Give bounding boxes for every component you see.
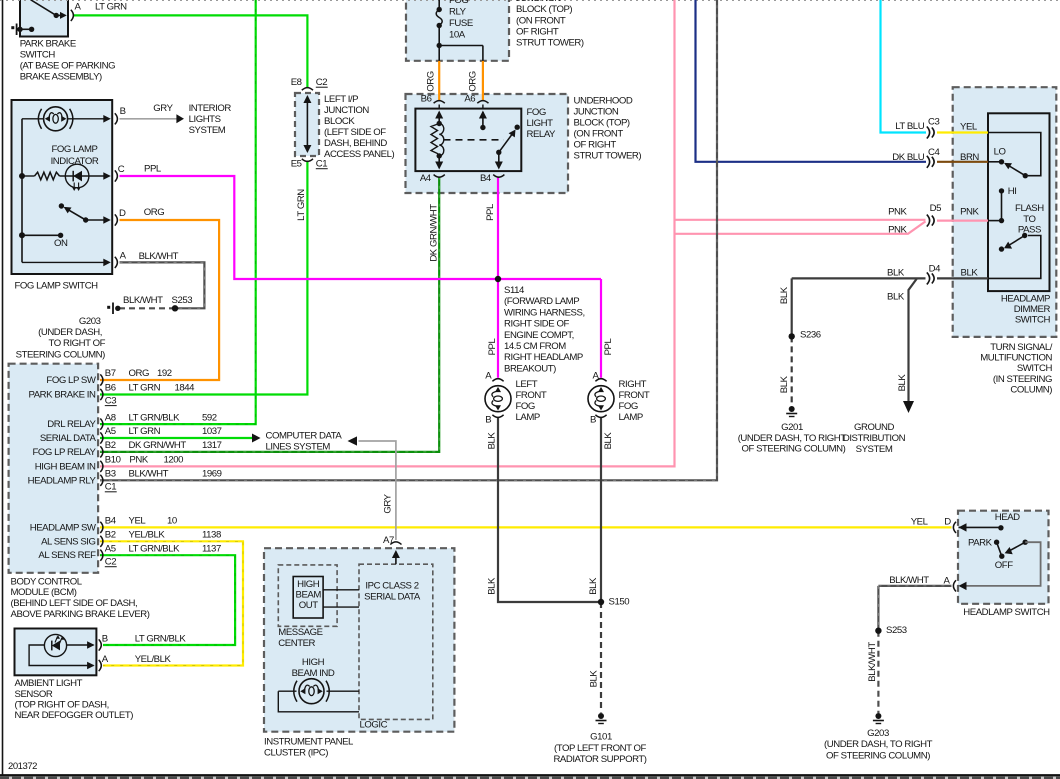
svg-text:BLOCK (TOP): BLOCK (TOP) bbox=[574, 118, 630, 129]
svg-text:LT GRN/BLK: LT GRN/BLK bbox=[135, 633, 187, 644]
svg-text:(AT BASE OF PARKING: (AT BASE OF PARKING bbox=[20, 60, 115, 71]
svg-text:LEFT I/P: LEFT I/P bbox=[324, 94, 358, 105]
svg-text:B: B bbox=[102, 633, 108, 644]
svg-text:B10: B10 bbox=[105, 455, 121, 466]
svg-text:HEAD: HEAD bbox=[995, 512, 1020, 523]
svg-text:SWITCH: SWITCH bbox=[1017, 363, 1053, 374]
svg-text:BLK/WHT: BLK/WHT bbox=[867, 642, 878, 682]
svg-text:COMPUTER DATA: COMPUTER DATA bbox=[266, 430, 343, 441]
svg-text:A6: A6 bbox=[464, 94, 475, 105]
svg-text:ENGINE COMPT,: ENGINE COMPT, bbox=[504, 330, 574, 341]
svg-text:1138: 1138 bbox=[202, 530, 221, 541]
svg-text:INDICATOR: INDICATOR bbox=[51, 156, 99, 167]
svg-text:DK GRN/WHT: DK GRN/WHT bbox=[429, 204, 440, 262]
svg-text:E5: E5 bbox=[291, 159, 302, 170]
svg-text:BRN: BRN bbox=[960, 152, 979, 163]
svg-text:RADIATOR SUPPORT): RADIATOR SUPPORT) bbox=[553, 754, 646, 765]
svg-text:1037: 1037 bbox=[202, 426, 222, 437]
svg-text:BLOCK: BLOCK bbox=[324, 116, 355, 127]
svg-text:FRONT: FRONT bbox=[516, 390, 547, 401]
svg-text:DK BLU: DK BLU bbox=[892, 152, 924, 163]
svg-text:DISTRIBUTION: DISTRIBUTION bbox=[843, 433, 906, 444]
svg-text:LO: LO bbox=[994, 146, 1006, 157]
svg-text:1969: 1969 bbox=[202, 469, 222, 480]
svg-text:LEFT: LEFT bbox=[516, 379, 538, 390]
svg-text:A: A bbox=[120, 251, 127, 262]
svg-text:UNDERHOOD: UNDERHOOD bbox=[574, 96, 633, 107]
svg-text:BLK/WHT: BLK/WHT bbox=[123, 295, 163, 306]
svg-text:HIGH: HIGH bbox=[297, 579, 320, 590]
svg-text:OF RIGHT: OF RIGHT bbox=[574, 140, 617, 151]
svg-text:JUNCTION: JUNCTION bbox=[324, 105, 369, 116]
svg-text:FOG LAMP SWITCH: FOG LAMP SWITCH bbox=[15, 281, 99, 292]
svg-text:LOGIC: LOGIC bbox=[360, 720, 388, 731]
svg-text:SYSTEM: SYSTEM bbox=[189, 125, 226, 136]
svg-text:OFF: OFF bbox=[995, 560, 1013, 571]
svg-text:ORG: ORG bbox=[144, 207, 165, 218]
svg-text:OUT: OUT bbox=[299, 600, 318, 611]
svg-text:BLK: BLK bbox=[487, 432, 498, 450]
svg-text:A: A bbox=[593, 371, 600, 382]
svg-text:PARK BRAKE IN: PARK BRAKE IN bbox=[28, 390, 96, 401]
svg-text:FLASH: FLASH bbox=[1015, 203, 1044, 214]
svg-text:B6: B6 bbox=[421, 94, 432, 105]
svg-text:G203: G203 bbox=[79, 316, 101, 327]
svg-text:MODULE (BCM): MODULE (BCM) bbox=[11, 587, 77, 598]
svg-text:SYSTEM: SYSTEM bbox=[856, 444, 893, 455]
svg-text:TO: TO bbox=[1023, 214, 1035, 225]
svg-text:C2: C2 bbox=[316, 77, 327, 88]
svg-text:LT GRN/BLK: LT GRN/BLK bbox=[129, 543, 181, 554]
svg-text:HEADLAMP SW: HEADLAMP SW bbox=[30, 522, 97, 533]
svg-text:TURN SIGNAL/: TURN SIGNAL/ bbox=[990, 342, 1053, 353]
svg-text:STEERING COLUMN): STEERING COLUMN) bbox=[16, 350, 106, 361]
svg-text:C3: C3 bbox=[105, 395, 116, 406]
svg-text:OF STEERING COLUMN): OF STEERING COLUMN) bbox=[741, 443, 845, 454]
svg-text:A: A bbox=[102, 654, 109, 665]
svg-text:BEAM IND: BEAM IND bbox=[292, 668, 335, 679]
svg-text:SWITCH: SWITCH bbox=[1015, 315, 1051, 326]
svg-text:GRY: GRY bbox=[153, 103, 173, 114]
svg-text:(FORWARD LAMP: (FORWARD LAMP bbox=[504, 296, 579, 307]
svg-text:B: B bbox=[590, 415, 596, 426]
svg-text:SERIAL DATA: SERIAL DATA bbox=[40, 433, 97, 444]
svg-text:PPL: PPL bbox=[487, 338, 498, 356]
svg-text:1137: 1137 bbox=[202, 543, 221, 554]
svg-text:CENTER: CENTER bbox=[278, 638, 315, 649]
svg-text:592: 592 bbox=[202, 412, 217, 423]
svg-text:B6: B6 bbox=[105, 383, 116, 394]
svg-text:PNK: PNK bbox=[960, 207, 979, 218]
svg-text:(BEHIND LEFT SIDE OF DASH,: (BEHIND LEFT SIDE OF DASH, bbox=[11, 598, 138, 609]
svg-text:B2: B2 bbox=[105, 530, 116, 541]
svg-text:201372: 201372 bbox=[8, 761, 37, 772]
svg-text:IPC CLASS 2: IPC CLASS 2 bbox=[365, 581, 418, 592]
svg-text:RIGHT HEADLAMP: RIGHT HEADLAMP bbox=[504, 352, 583, 363]
svg-text:(TOP RIGHT OF DASH,: (TOP RIGHT OF DASH, bbox=[15, 699, 109, 710]
svg-text:(UNDER DASH, TO RIGHT: (UNDER DASH, TO RIGHT bbox=[738, 433, 847, 444]
svg-text:AL SENS REF: AL SENS REF bbox=[38, 550, 96, 561]
svg-text:BODY CONTROL: BODY CONTROL bbox=[11, 576, 83, 587]
svg-text:BEAM: BEAM bbox=[296, 590, 322, 601]
svg-text:1317: 1317 bbox=[202, 440, 222, 451]
svg-text:INTERIOR: INTERIOR bbox=[189, 103, 232, 114]
svg-text:PARK BRAKE: PARK BRAKE bbox=[20, 38, 76, 49]
svg-text:RELAY: RELAY bbox=[527, 129, 557, 140]
svg-text:YEL/BLK: YEL/BLK bbox=[129, 530, 166, 541]
svg-text:(LEFT SIDE OF: (LEFT SIDE OF bbox=[324, 127, 386, 138]
svg-text:1200: 1200 bbox=[164, 455, 184, 466]
svg-text:PNK: PNK bbox=[888, 207, 907, 218]
svg-text:BLK: BLK bbox=[887, 268, 905, 279]
svg-text:LIGHT: LIGHT bbox=[527, 118, 554, 129]
svg-text:G201: G201 bbox=[781, 422, 803, 433]
svg-text:HEADLAMP RLY: HEADLAMP RLY bbox=[28, 475, 97, 486]
svg-text:ON: ON bbox=[54, 238, 68, 249]
svg-text:ORG: ORG bbox=[129, 368, 150, 379]
svg-text:G101: G101 bbox=[590, 732, 612, 743]
svg-text:C3: C3 bbox=[928, 116, 939, 127]
svg-text:OF RIGHT: OF RIGHT bbox=[516, 27, 559, 38]
svg-text:BLK: BLK bbox=[897, 374, 908, 392]
svg-text:PNK: PNK bbox=[129, 455, 148, 466]
svg-text:FOG: FOG bbox=[516, 401, 535, 412]
svg-text:YEL: YEL bbox=[960, 121, 978, 132]
svg-text:BRAKE ASSEMBLY): BRAKE ASSEMBLY) bbox=[20, 71, 102, 82]
svg-text:S150: S150 bbox=[609, 597, 630, 608]
svg-text:HIGH BEAM IN: HIGH BEAM IN bbox=[35, 461, 96, 472]
svg-text:FOG: FOG bbox=[619, 401, 638, 412]
svg-text:FOG: FOG bbox=[449, 0, 468, 6]
svg-text:PPL: PPL bbox=[485, 203, 496, 221]
svg-text:BLK/WHT: BLK/WHT bbox=[129, 469, 169, 480]
svg-text:BLK: BLK bbox=[589, 670, 600, 688]
svg-text:192: 192 bbox=[157, 368, 172, 379]
svg-text:TO RIGHT OF: TO RIGHT OF bbox=[49, 338, 106, 349]
svg-text:BLK: BLK bbox=[887, 291, 905, 302]
svg-text:(ON FRONT: (ON FRONT bbox=[516, 16, 566, 27]
svg-text:LINES SYSTEM: LINES SYSTEM bbox=[266, 442, 331, 453]
svg-text:FUSE: FUSE bbox=[449, 18, 473, 29]
svg-text:AMBIENT LIGHT: AMBIENT LIGHT bbox=[15, 678, 83, 689]
svg-text:C1: C1 bbox=[316, 159, 327, 170]
svg-text:BLK/WHT: BLK/WHT bbox=[139, 251, 179, 262]
svg-text:A: A bbox=[944, 576, 951, 587]
svg-text:B4: B4 bbox=[480, 173, 492, 184]
svg-text:LAMP: LAMP bbox=[516, 412, 540, 423]
svg-text:B: B bbox=[120, 106, 126, 117]
svg-text:C: C bbox=[118, 164, 125, 175]
svg-text:G203: G203 bbox=[867, 728, 889, 739]
svg-text:LT GRN/BLK: LT GRN/BLK bbox=[129, 412, 181, 423]
svg-text:C1: C1 bbox=[105, 482, 116, 493]
svg-text:RIGHT: RIGHT bbox=[619, 379, 647, 390]
svg-text:YEL: YEL bbox=[129, 516, 147, 527]
svg-text:DRL RELAY: DRL RELAY bbox=[47, 419, 96, 430]
svg-text:SWITCH: SWITCH bbox=[20, 49, 56, 60]
svg-text:(TOP LEFT FRONT OF: (TOP LEFT FRONT OF bbox=[554, 743, 647, 754]
svg-text:STRUT TOWER): STRUT TOWER) bbox=[574, 151, 642, 162]
svg-text:A: A bbox=[75, 1, 82, 12]
svg-text:NEAR DEFOGGER OUTLET): NEAR DEFOGGER OUTLET) bbox=[15, 710, 134, 721]
svg-text:B3: B3 bbox=[105, 469, 116, 480]
svg-text:SERIAL DATA: SERIAL DATA bbox=[364, 591, 421, 602]
svg-text:BLK: BLK bbox=[779, 375, 790, 393]
svg-text:BLK: BLK bbox=[603, 432, 614, 450]
svg-text:FOG LAMP: FOG LAMP bbox=[52, 144, 98, 155]
svg-text:BLK: BLK bbox=[961, 268, 979, 279]
svg-text:A8: A8 bbox=[105, 412, 116, 423]
svg-text:B: B bbox=[485, 415, 491, 426]
svg-text:OF STEERING COLUMN): OF STEERING COLUMN) bbox=[826, 750, 930, 761]
svg-text:COLUMN): COLUMN) bbox=[1010, 384, 1052, 395]
svg-text:FOG: FOG bbox=[527, 107, 546, 118]
svg-text:AL SENS SIG: AL SENS SIG bbox=[41, 536, 95, 547]
svg-text:BLK/WHT: BLK/WHT bbox=[889, 575, 929, 586]
svg-text:FOG LP SW: FOG LP SW bbox=[46, 375, 96, 386]
svg-text:B7: B7 bbox=[105, 368, 116, 379]
svg-text:ACCESS PANEL): ACCESS PANEL) bbox=[324, 149, 394, 160]
svg-text:YEL/BLK: YEL/BLK bbox=[135, 654, 172, 665]
svg-text:A4: A4 bbox=[420, 173, 432, 184]
svg-text:JUNCTION: JUNCTION bbox=[574, 107, 619, 118]
svg-text:S114: S114 bbox=[504, 285, 525, 296]
svg-text:(IN STEERING: (IN STEERING bbox=[993, 374, 1052, 385]
svg-text:MESSAGE: MESSAGE bbox=[278, 627, 322, 638]
svg-text:HI: HI bbox=[1008, 186, 1017, 197]
svg-text:ORG: ORG bbox=[468, 71, 479, 92]
svg-text:YEL: YEL bbox=[911, 516, 929, 527]
svg-text:B4: B4 bbox=[105, 516, 117, 527]
svg-text:HIGH: HIGH bbox=[302, 657, 325, 668]
svg-text:DK GRN/WHT: DK GRN/WHT bbox=[129, 440, 187, 451]
svg-text:HEADLAMP: HEADLAMP bbox=[1001, 294, 1050, 305]
svg-text:A: A bbox=[485, 371, 492, 382]
svg-text:D5: D5 bbox=[930, 203, 941, 214]
svg-text:10: 10 bbox=[167, 516, 177, 527]
svg-text:PNK: PNK bbox=[888, 224, 907, 235]
svg-text:1844: 1844 bbox=[175, 383, 196, 394]
svg-text:HEADLAMP SWITCH: HEADLAMP SWITCH bbox=[963, 607, 1050, 618]
svg-text:STRUT TOWER): STRUT TOWER) bbox=[516, 38, 584, 49]
svg-text:(UNDER DASH, TO RIGHT: (UNDER DASH, TO RIGHT bbox=[824, 739, 933, 750]
svg-text:(ON FRONT: (ON FRONT bbox=[574, 129, 624, 140]
svg-text:A5: A5 bbox=[105, 426, 116, 437]
svg-text:D: D bbox=[119, 208, 126, 219]
svg-text:A7: A7 bbox=[383, 535, 394, 546]
svg-text:14.5 CM FROM: 14.5 CM FROM bbox=[504, 341, 566, 352]
svg-text:10A: 10A bbox=[449, 30, 466, 41]
svg-text:CLUSTER (IPC): CLUSTER (IPC) bbox=[264, 747, 328, 758]
svg-text:C2: C2 bbox=[105, 557, 116, 568]
svg-text:PARK: PARK bbox=[968, 538, 993, 549]
svg-text:FRONT: FRONT bbox=[619, 390, 650, 401]
svg-text:LT BLU: LT BLU bbox=[895, 121, 924, 132]
svg-text:GRY: GRY bbox=[382, 493, 393, 513]
svg-text:B2: B2 bbox=[105, 440, 116, 451]
svg-text:LIGHTS: LIGHTS bbox=[189, 114, 221, 125]
svg-text:PPL: PPL bbox=[144, 164, 162, 175]
svg-text:A5: A5 bbox=[105, 543, 116, 554]
svg-text:INSTRUMENT PANEL: INSTRUMENT PANEL bbox=[264, 737, 354, 748]
svg-text:DASH, BEHIND: DASH, BEHIND bbox=[324, 138, 387, 149]
svg-text:E8: E8 bbox=[291, 77, 302, 88]
svg-text:(UNDER DASH,: (UNDER DASH, bbox=[38, 327, 102, 338]
svg-text:BLOCK (TOP): BLOCK (TOP) bbox=[516, 4, 572, 15]
svg-text:RLY: RLY bbox=[449, 7, 467, 18]
svg-text:PASS: PASS bbox=[1018, 225, 1041, 236]
svg-text:BREAKOUT): BREAKOUT) bbox=[504, 363, 556, 374]
svg-text:D: D bbox=[944, 516, 951, 527]
svg-text:LT GRN: LT GRN bbox=[129, 383, 161, 394]
svg-text:BLK: BLK bbox=[487, 577, 498, 595]
svg-text:SENSOR: SENSOR bbox=[15, 689, 53, 700]
svg-text:LT GRN: LT GRN bbox=[296, 189, 307, 221]
svg-text:DIMMER: DIMMER bbox=[1014, 304, 1051, 315]
svg-text:ABOVE PARKING BRAKE LEVER): ABOVE PARKING BRAKE LEVER) bbox=[11, 609, 150, 620]
svg-text:FOG LP RELAY: FOG LP RELAY bbox=[32, 447, 96, 458]
svg-text:LT GRN: LT GRN bbox=[129, 426, 161, 437]
svg-text:S253: S253 bbox=[886, 625, 907, 636]
svg-text:LT GRN: LT GRN bbox=[95, 1, 127, 12]
svg-text:S236: S236 bbox=[800, 330, 821, 341]
svg-text:LAMP: LAMP bbox=[619, 412, 643, 423]
svg-text:GROUND: GROUND bbox=[854, 422, 894, 433]
svg-text:MULTIFUNCTION: MULTIFUNCTION bbox=[980, 353, 1052, 364]
svg-text:C4: C4 bbox=[928, 147, 940, 158]
svg-text:BLK: BLK bbox=[588, 577, 599, 595]
svg-text:D4: D4 bbox=[929, 263, 941, 274]
svg-text:ORG: ORG bbox=[425, 71, 436, 92]
svg-text:PPL: PPL bbox=[603, 338, 614, 356]
svg-text:WIRING HARNESS,: WIRING HARNESS, bbox=[504, 307, 585, 318]
svg-text:BLK: BLK bbox=[779, 286, 790, 304]
svg-text:RIGHT SIDE OF: RIGHT SIDE OF bbox=[504, 319, 569, 330]
svg-text:S253: S253 bbox=[172, 295, 193, 306]
